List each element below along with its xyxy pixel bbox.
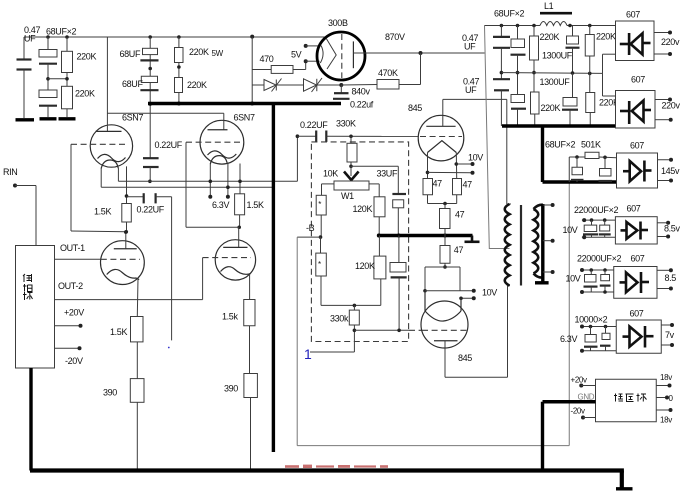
node rail-column150 <box>148 35 152 39</box>
wire filament pins V5 <box>427 153 429 179</box>
svg-text:UF: UF <box>24 34 36 44</box>
capacitor 22000UF b2 <box>604 220 606 225</box>
wire column x150 <box>149 37 151 158</box>
resistor 501K <box>585 152 599 158</box>
capacitor 10000 d1 <box>590 327 592 335</box>
svg-text:+20v: +20v <box>571 376 588 385</box>
wire outputs 8.5 <box>657 269 671 271</box>
node rail-68uf <box>46 35 50 39</box>
resistor 390 left <box>130 379 144 403</box>
capacitor 0.22uf at 300B <box>340 85 342 93</box>
wire thick from box to bus <box>29 368 32 471</box>
svg-text:OUT-1: OUT-1 <box>60 243 85 253</box>
ground bar secondary <box>535 281 549 284</box>
svg-text:840v: 840v <box>352 87 371 97</box>
wire thick cathode bus 845 <box>378 234 473 237</box>
wire row3 top <box>569 156 585 158</box>
filament legs V6 <box>424 291 426 311</box>
svg-text:220v: 220v <box>661 37 680 47</box>
svg-text:47: 47 <box>433 179 443 189</box>
tube 6SN7 V1 <box>90 125 132 167</box>
svg-text:47: 47 <box>455 210 465 220</box>
dashed box feedback network <box>311 142 408 342</box>
wire junction <box>48 78 67 80</box>
svg-text:220K: 220K <box>541 103 561 113</box>
wire riser to coupling cap <box>296 136 298 181</box>
resistor star lower <box>316 253 327 276</box>
wire OUT-2 riser <box>202 258 204 300</box>
svg-text:10V: 10V <box>482 288 497 298</box>
svg-text:501K: 501K <box>581 140 601 150</box>
resistor 1.5K V2 <box>235 194 245 215</box>
wire heater bus A <box>118 180 297 182</box>
svg-text:390: 390 <box>103 388 117 398</box>
svg-text:607: 607 <box>631 75 645 85</box>
svg-text:68UF×2: 68UF×2 <box>494 9 525 19</box>
svg-text:47: 47 <box>454 245 464 255</box>
svg-text:330K: 330K <box>336 119 356 129</box>
svg-text:*: * <box>318 260 321 269</box>
wire outputs 145v <box>658 159 672 161</box>
wire thick center divider <box>272 104 275 453</box>
resistor 220K psu B2 <box>531 92 540 114</box>
wire heater bus B <box>101 186 273 188</box>
svg-text:220K: 220K <box>189 47 209 57</box>
svg-text:470: 470 <box>260 54 274 64</box>
wire -B out <box>297 236 320 238</box>
resistor 220K lower-left <box>62 86 73 109</box>
wire thick drop <box>541 126 544 182</box>
capacitor 68UF lower-right <box>141 76 157 82</box>
resistor 47 b <box>453 179 462 195</box>
svg-text:220v: 220v <box>662 101 680 111</box>
capacitor 0.47UF input <box>23 37 25 59</box>
resistor star upper <box>316 195 326 215</box>
resistor 1.5K V1 <box>122 204 132 223</box>
svg-text:220K: 220K <box>77 52 97 62</box>
svg-text:607: 607 <box>630 309 644 319</box>
capacitor 0.47UF lower <box>493 78 510 80</box>
svg-text:+20V: +20V <box>64 308 84 318</box>
svg-text:10V: 10V <box>563 225 578 235</box>
cathode tent V5 <box>428 141 457 153</box>
wire heater pin left V1 <box>100 168 102 188</box>
svg-text:120K: 120K <box>355 261 375 271</box>
svg-text:607: 607 <box>631 254 645 264</box>
svg-text:6SN7: 6SN7 <box>234 113 255 123</box>
primary coil <box>505 204 510 286</box>
node RIN <box>13 184 17 188</box>
capacitor 33UF lower <box>398 236 400 263</box>
capacitor 22000UF b1 <box>591 220 593 225</box>
svg-text:UF: UF <box>465 85 477 95</box>
wire rowC bottom <box>582 291 614 293</box>
svg-text:845: 845 <box>458 353 472 363</box>
capacitor 22000UF c2 <box>604 270 606 275</box>
wire thick GND <box>543 400 596 403</box>
node filament pin upper <box>304 44 308 48</box>
taps <box>543 204 553 206</box>
capacitor 1300UF upper <box>572 26 574 37</box>
wire psu top rail <box>485 25 541 27</box>
svg-text:0.22UF: 0.22UF <box>155 140 183 150</box>
svg-text:1: 1 <box>304 346 312 362</box>
svg-text:470K: 470K <box>378 68 398 78</box>
svg-text:1.5K: 1.5K <box>247 200 264 210</box>
wire +20V stub <box>55 325 81 327</box>
tube 845 V6 <box>421 301 468 348</box>
svg-text:-B: -B <box>306 223 315 233</box>
plate 300B <box>352 41 354 68</box>
resistor 1.5K V3 <box>131 317 144 342</box>
svg-text:5W: 5W <box>212 49 224 58</box>
label wen-ya-ban glyphs <box>614 394 647 402</box>
wire thick B+ node line <box>148 102 341 105</box>
wire V2 grid loop <box>185 142 187 227</box>
wire -B loop <box>296 237 298 446</box>
svg-text:22000UF×2: 22000UF×2 <box>577 254 621 264</box>
wire plate V5 to B+ <box>443 98 507 100</box>
node -B <box>319 235 323 239</box>
svg-text:300B: 300B <box>328 18 348 28</box>
inductor L1 core bar <box>540 12 572 15</box>
svg-text:18v: 18v <box>660 416 672 425</box>
svg-text:6SN7: 6SN7 <box>122 113 143 123</box>
svg-text:47: 47 <box>463 180 473 190</box>
wire rowD top <box>581 326 616 328</box>
resistor 47 c <box>444 204 446 209</box>
svg-text:22000UF×2: 22000UF×2 <box>574 205 618 215</box>
node 330k top <box>353 304 357 308</box>
diode D2 <box>304 79 317 91</box>
capacitor 68UF upper-left <box>47 37 49 50</box>
capacitor 10000 d2 <box>605 327 607 334</box>
capacitor 68UF upper-right <box>143 48 158 54</box>
svg-text:10V: 10V <box>566 274 581 284</box>
box regulator <box>596 379 657 422</box>
svg-text:6.3V: 6.3V <box>212 200 229 210</box>
resistor 220K 5W dropper <box>178 37 180 48</box>
wire outputs 220v <box>654 32 670 34</box>
ground <box>40 117 57 120</box>
svg-text:UF: UF <box>464 42 476 52</box>
secondary bus <box>541 204 544 282</box>
wire 330k tail <box>310 351 354 353</box>
rectifier 607 blockC <box>614 267 657 299</box>
wire -20V stub <box>55 347 80 349</box>
resistor 1.5k V4 <box>244 300 255 326</box>
svg-text:1.5K: 1.5K <box>94 207 111 217</box>
svg-text:10V: 10V <box>468 153 483 163</box>
svg-text:1.5K: 1.5K <box>110 327 127 337</box>
capacitor 68UF psu A1 <box>517 26 519 40</box>
svg-text:390: 390 <box>224 384 238 394</box>
node rail-178 <box>177 35 181 39</box>
svg-text:5V: 5V <box>291 50 302 60</box>
svg-text:68UF: 68UF <box>120 49 141 59</box>
node 6.3V terminals <box>208 195 212 199</box>
capacitor 22000UF c1 <box>590 270 592 275</box>
wire pot left <box>322 183 335 185</box>
svg-text:220K: 220K <box>596 32 616 42</box>
wire top B+ rail <box>24 36 327 38</box>
wire main ground bus <box>30 468 624 472</box>
resistor 220K psu D2 <box>586 93 595 113</box>
wire outputs 220v b2 <box>655 99 670 101</box>
wire cathode V4 <box>249 273 251 300</box>
svg-text:8.5v: 8.5v <box>664 224 680 234</box>
svg-text:8.5: 8.5 <box>665 273 677 283</box>
svg-text:330k: 330k <box>330 314 349 324</box>
secondary coil <box>534 209 539 274</box>
resistor 120K upper <box>374 197 385 217</box>
rectifier 607 blockB <box>615 217 657 244</box>
svg-text:OUT-2: OUT-2 <box>58 281 83 291</box>
wire outputs 7v <box>661 324 672 326</box>
node filament pin lower <box>304 59 308 63</box>
wire V1 grid loop <box>70 144 72 231</box>
wire thick psu bus <box>502 124 617 127</box>
resistor 220K psu D1 <box>589 26 591 35</box>
svg-text:18v: 18v <box>660 373 672 382</box>
wire plate V6 to OPT <box>444 341 446 377</box>
svg-text:33UF: 33UF <box>377 169 398 179</box>
wire rowC top <box>582 269 614 271</box>
svg-text:1.5k: 1.5k <box>222 312 238 322</box>
wire heater pin right V1 <box>117 168 119 182</box>
svg-text:220K: 220K <box>75 89 95 99</box>
wire rowB bottom <box>582 236 616 238</box>
wire grid 845 V6 <box>354 329 409 331</box>
svg-text:*: * <box>318 200 321 209</box>
wire OUT-2 <box>55 299 203 301</box>
svg-text:145v: 145v <box>661 166 680 176</box>
wire -20v in <box>581 416 585 420</box>
capacitor 68UF psu A2 <box>511 95 525 103</box>
resistor 220K dropper lower <box>175 78 183 93</box>
svg-text:6.3V: 6.3V <box>560 334 577 344</box>
wire cathode V2 <box>239 164 241 194</box>
node 870V <box>419 51 423 55</box>
diode D1 <box>252 84 264 86</box>
resistor 120K lower <box>378 236 380 257</box>
svg-text:220K: 220K <box>187 80 207 90</box>
svg-text:L1: L1 <box>544 1 554 11</box>
wire cathode V1 <box>126 166 128 203</box>
potentiometer W1 body <box>334 181 369 190</box>
svg-text:-20v: -20v <box>571 407 586 416</box>
node 68uf junction <box>46 77 50 81</box>
svg-text:10000×2: 10000×2 <box>575 315 608 325</box>
resistor 390 right <box>244 374 258 398</box>
wire rect1 lower input <box>602 54 604 73</box>
wire cathode V3 <box>136 279 139 317</box>
capacitor 0.47UF upper <box>500 26 502 37</box>
resistor 220K psu B1 <box>533 26 535 37</box>
wire OUT-1 <box>55 258 101 260</box>
tube 6SN7 V4 <box>215 240 255 280</box>
svg-text:607: 607 <box>630 141 644 151</box>
node 300B cathode bottom <box>339 83 343 87</box>
wire grid feed 845 V5 <box>326 135 418 137</box>
resistor 220K upper-left <box>66 37 68 51</box>
wire star lower to 330k node <box>321 304 381 306</box>
capacitor 1300UF lower <box>572 73 574 98</box>
wire wiper to 33UF <box>351 165 398 167</box>
red watermark remains <box>285 465 388 468</box>
wire pot right to 120K <box>369 183 379 185</box>
svg-text:68UF×2: 68UF×2 <box>545 140 576 150</box>
wire B+ drop to OPT tap <box>485 26 510 249</box>
rectifier 607 blockD <box>616 320 661 353</box>
wire heater terminals V6 <box>425 290 474 292</box>
box phase inverter <box>16 246 55 369</box>
wire rect2 upper input <box>602 73 604 96</box>
inductor L1 <box>540 22 567 26</box>
capacitor 68UF lower-left <box>39 90 57 98</box>
svg-text:68UF: 68UF <box>122 79 143 89</box>
svg-text:607: 607 <box>626 10 640 20</box>
wire filament loop V6 <box>444 263 446 267</box>
svg-text:607: 607 <box>627 204 641 214</box>
ground at cathode bus <box>471 236 474 242</box>
wire vertical from rail <box>251 37 253 104</box>
ground <box>59 117 76 120</box>
label dao-xiang-ban glyphs <box>23 274 33 300</box>
core <box>520 205 522 286</box>
resistor 47 d <box>444 236 446 246</box>
ground <box>16 118 35 121</box>
capacitor 68UF r3b <box>604 157 606 168</box>
svg-text:7v: 7v <box>665 330 675 340</box>
svg-text:10K: 10K <box>323 169 338 179</box>
node 330K top <box>349 135 353 139</box>
svg-text:0.22uf: 0.22uf <box>350 100 374 110</box>
tube 845 V5 <box>418 115 464 161</box>
resistor 47 a <box>423 179 433 195</box>
svg-text:RIN: RIN <box>3 167 17 177</box>
tube 6SN7 V2 <box>200 120 244 164</box>
capacitor 68UF r3a <box>576 157 578 167</box>
svg-text:870V: 870V <box>385 32 405 42</box>
svg-text:120K: 120K <box>353 204 373 214</box>
wire heater terminals V5 <box>456 163 472 165</box>
resistor 330k <box>353 305 355 310</box>
svg-text:845: 845 <box>408 103 422 113</box>
svg-text:0.22UF: 0.22UF <box>137 205 165 215</box>
svg-text:W1: W1 <box>341 191 354 201</box>
wire outputs 8.5v <box>657 222 668 224</box>
wire +20v in <box>579 384 583 388</box>
wire 870V drop <box>420 53 422 85</box>
resistor 330K top <box>350 136 352 143</box>
wire rowB top <box>582 219 616 221</box>
node vertical470 top <box>250 35 254 39</box>
tube 6SN7 V3 <box>101 241 145 285</box>
svg-text:1300UF: 1300UF <box>542 51 573 61</box>
svg-text:68UF×2: 68UF×2 <box>46 27 77 37</box>
wire heater pins V2 <box>209 164 211 197</box>
wire rowD bottom <box>581 350 616 352</box>
node rail-220K <box>65 35 69 39</box>
svg-text:0.22UF: 0.22UF <box>300 120 328 130</box>
svg-text:220K: 220K <box>540 32 560 42</box>
svg-text:-20V: -20V <box>65 356 83 366</box>
wire psu mid rail <box>501 72 602 75</box>
potentiometer W1 10K arrow <box>350 166 352 174</box>
ground main <box>616 487 633 490</box>
svg-text:1300UF: 1300UF <box>540 77 571 87</box>
